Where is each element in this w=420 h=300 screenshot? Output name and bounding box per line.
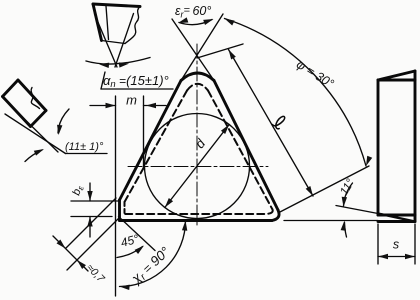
wire: m dimension extension lines xyxy=(115,96,117,296)
wire: 45deg arc with arrow xyxy=(117,247,143,258)
wire: bottom edge horizontal extension to side view xyxy=(284,220,378,222)
wire: 11deg measuring arc lower xyxy=(25,150,42,162)
wire: m dimension line with outside arrows xyxy=(90,105,116,107)
side view: top face wedge xyxy=(378,71,415,80)
wire: right edge extended through apex xyxy=(172,19,214,81)
svg-text:(11± 1)°: (11± 1)° xyxy=(65,141,104,153)
svg-text:φ = 30°: φ = 30° xyxy=(294,57,336,91)
wire: alpha construction line 1 xyxy=(95,14,118,67)
wire: chi_r arc xyxy=(120,221,186,287)
wire: horizontal centerline of insert xyxy=(128,166,268,168)
svg-text:εr= 60°: εr= 60° xyxy=(175,4,211,20)
wire: 11deg construction line 2 xyxy=(5,114,66,154)
svg-text:bε: bε xyxy=(70,184,85,197)
wire: 11deg construction line 1 xyxy=(3,98,58,152)
node: l label xyxy=(272,114,286,130)
wire: l dimension extension at apex xyxy=(197,44,243,58)
wire: 11deg arc lower xyxy=(345,223,347,238)
wire: l dimension extension at bottom-right corner xyxy=(278,166,369,213)
wire: b_e extension lines xyxy=(71,200,118,202)
wire: vertical centerline of insert xyxy=(196,44,198,228)
wire: epsilon arc xyxy=(179,20,212,25)
node C: hidden bottom face (dashed inner triangle) xyxy=(187,84,208,91)
svg-text:≈0,7: ≈0,7 xyxy=(84,262,108,286)
node: sharpening detail 2 (edge section, left, tilted) xyxy=(3,80,47,127)
wire: 45deg direction diagonal from bottom edge xyxy=(119,217,156,251)
node A: insert outline (top view, solid triangle with rounded/chamfered corners) xyxy=(181,73,214,81)
wire: d dimension line xyxy=(165,125,229,208)
node B: corner facet at bottom-left (chamfer b) xyxy=(118,200,121,221)
wire: alpha construction line 2 xyxy=(115,14,134,68)
wire: 11deg slant extension (from side view bottom face) xyxy=(336,206,378,214)
wire: left edge extended through apex xyxy=(181,14,223,81)
wire: approx 0,7 dimension line across xyxy=(53,236,88,271)
svg-text:45°: 45° xyxy=(119,232,140,250)
node: sharpening detail 1 (edge section, top-left) xyxy=(93,4,140,7)
svg-text:s: s xyxy=(393,238,399,252)
wire: phi arc xyxy=(225,19,367,167)
wire: 45deg chamfer extension lines (parallel diagonals) xyxy=(66,198,116,248)
wire: 11deg measuring arc upper xyxy=(58,109,69,133)
wire: s dimension line xyxy=(378,256,415,258)
svg-text:d: d xyxy=(192,136,209,152)
side view: bottom face wedge xyxy=(378,214,415,217)
side view: left edge xyxy=(377,80,380,215)
side view: right edge xyxy=(414,71,417,222)
wire: l dimension line xyxy=(229,50,314,197)
svg-text:αn =(15±1)°: αn =(15±1)° xyxy=(103,73,169,90)
wire: 11deg arc upper xyxy=(344,183,353,206)
wire: b_e dimension line with outside arrows xyxy=(89,183,91,201)
wire: s dimension extension lines xyxy=(377,224,379,264)
svg-text:m: m xyxy=(126,93,137,108)
wire: alpha measuring arc xyxy=(86,58,150,65)
node D: inscribed circle d xyxy=(145,114,250,219)
